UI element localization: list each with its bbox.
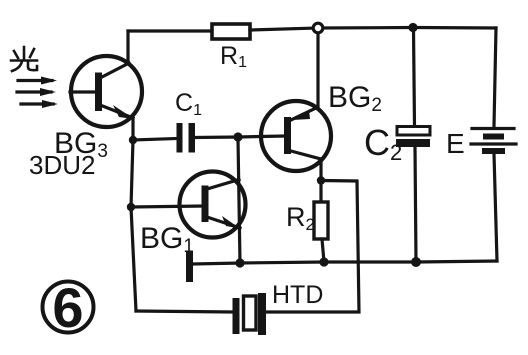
wire BG1 base lead (131, 206, 203, 207)
wire C2 top lead (414, 29, 415, 127)
wire R2 top lead (319, 181, 322, 203)
light arrow 1 (18, 77, 57, 85)
wire R2 bottom lead (322, 239, 324, 262)
wire C2 bottom lead (415, 147, 416, 262)
node junction top rail / C2 (408, 23, 417, 32)
node junction BG2 collector / R2 / loop (317, 176, 325, 184)
wire BG3 emitter lead (131, 118, 134, 140)
label circled 6 (43, 282, 94, 333)
wire top rail right segment (318, 26, 496, 30)
node junction left vertical / BG1 base (127, 203, 135, 211)
wire bottom rail (240, 261, 497, 263)
wire vertical BG1 collector-emitter rail (238, 139, 240, 263)
node junction C2 / bottom rail (411, 257, 421, 267)
transistor BG2 (261, 101, 331, 171)
light arrow 3 (21, 100, 58, 108)
capacitor C1 (177, 123, 196, 153)
light arrow 2 (17, 88, 56, 96)
node junction BG1 emitter / bottom rail (235, 258, 244, 267)
wire loop BG2 collector to HTD right (266, 181, 359, 313)
wire top rail middle segment (250, 28, 318, 30)
svg-text:6: 6 (52, 276, 83, 339)
electrode bar at BG1 emitter (186, 251, 193, 282)
wire battery E top lead (494, 28, 496, 126)
svg-text:R1: R1 (220, 42, 247, 71)
wire C1 right plate to node (195, 135, 238, 139)
wire electrode to node (193, 263, 240, 264)
wire HTD left to bottom-left corner (136, 311, 233, 312)
svg-text:HTD: HTD (272, 281, 323, 309)
transistor BG3 (3DU2 phototransistor) (70, 56, 142, 127)
resistor R1 (212, 24, 250, 39)
capacitor C2 electrolytic (396, 127, 430, 148)
piezo sounder HTD (233, 293, 267, 335)
svg-text:R2: R2 (286, 202, 315, 234)
wire BG2 emitter to top rail (316, 33, 319, 108)
svg-text:3DU2: 3DU2 (29, 150, 95, 180)
svg-text:BG2: BG2 (328, 81, 382, 116)
transistor BG1 (180, 172, 246, 238)
wire battery E bottom lead (494, 154, 497, 261)
node junction R2 / bottom rail (319, 257, 328, 266)
wire node to C1 left plate (133, 139, 177, 141)
node junction C1 / BG2 base / BG1 collector (233, 132, 242, 141)
node junction BG3 emitter / C1 (129, 136, 137, 144)
svg-text:C1: C1 (175, 89, 202, 119)
node ring junction top rail / BG2 (313, 23, 323, 33)
battery E (471, 129, 516, 155)
wire left vertical bottom (131, 207, 136, 311)
resistor R2 (314, 202, 328, 239)
wire left vertical middle (131, 140, 133, 207)
wire node to BG2 base (238, 136, 284, 137)
wire left vertical to BG3 collector (126, 31, 129, 62)
wire top rail left segment (128, 29, 212, 32)
light symbol Chinese character (11, 47, 37, 71)
wire BG2 collector lead (319, 159, 322, 180)
svg-text:E: E (446, 128, 465, 159)
